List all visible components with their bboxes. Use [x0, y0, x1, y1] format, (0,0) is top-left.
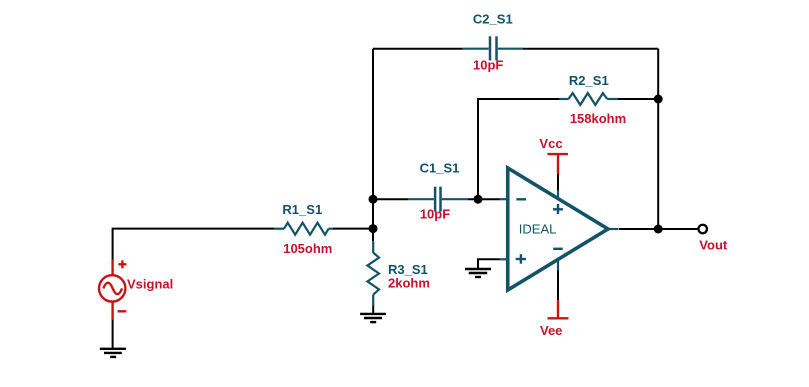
op-amp Vcc plus mark [553, 208, 563, 210]
svg-text:Vcc: Vcc [539, 136, 562, 151]
value 2kohm [388, 276, 430, 291]
svg-text:10pF: 10pF [473, 58, 503, 73]
junction (R2 / right rail) [654, 95, 663, 104]
svg-text:C2_S1: C2_S1 [473, 12, 513, 27]
svg-text:R2_S1: R2_S1 [569, 73, 609, 88]
junction (R1/R3/C-branch node) [369, 224, 378, 233]
svg-text:R1_S1: R1_S1 [282, 202, 322, 217]
wire feedback branch (node to R2) [478, 99, 560, 199]
op-amp Vee minus mark [553, 248, 563, 250]
svg-text:Vee: Vee [540, 323, 562, 338]
wire op-amp output to terminal [619, 228, 698, 230]
op-amp output stub [608, 228, 619, 230]
ground (non-inverting input) [465, 269, 491, 277]
wire C1 to inverting input node [468, 198, 500, 200]
power rail Vcc [547, 154, 568, 174]
power rail Vee [548, 300, 569, 318]
wire top rail left [373, 48, 463, 50]
resistor R2_S1 [560, 93, 618, 105]
value 158kohm [570, 111, 626, 126]
svg-text:10pF: 10pF [420, 207, 450, 222]
value 105ohm [283, 241, 332, 256]
label Vee [540, 323, 562, 338]
ground (source) [100, 349, 126, 357]
svg-text:Vsignal: Vsignal [127, 277, 173, 292]
svg-text:158kohm: 158kohm [570, 111, 626, 126]
resistor R1_S1 [274, 223, 333, 235]
wire R3 to ground [372, 305, 374, 314]
op-amp non-inverting input plus mark [516, 258, 526, 260]
wire source bottom to ground [112, 320, 114, 349]
wire node to R3 [372, 229, 374, 242]
op-amp U1 (IDEAL) [500, 168, 619, 300]
svg-text:105ohm: 105ohm [283, 241, 332, 256]
op-amp Vee pin black segment [557, 270, 559, 300]
terminal Vout [698, 225, 707, 234]
wire top rail right [523, 48, 658, 50]
label Vout [699, 237, 728, 252]
label C1_S1 [420, 161, 460, 176]
junction (C1 / R2 / op-amp inverting input) [474, 195, 483, 204]
junction (output / feedback) [654, 225, 663, 234]
wire non-inverting input to ground [478, 259, 500, 269]
label C2_S1 [473, 12, 513, 27]
op-amp Vcc pin teal stub [557, 190, 559, 200]
svg-text:2kohm: 2kohm [388, 276, 430, 291]
wire from source top to R1 [113, 229, 274, 260]
capacitor C2_S1 [463, 36, 523, 60]
value 10pF (C1) [420, 207, 450, 222]
label Vcc [539, 136, 562, 151]
label R1_S1 [282, 202, 322, 217]
op-amp triangle [508, 168, 608, 290]
svg-text:C1_S1: C1_S1 [420, 161, 460, 176]
svg-text:IDEAL: IDEAL [519, 222, 557, 237]
label R3_S1 [388, 262, 428, 277]
junction (C1 branch node) [369, 195, 378, 204]
wire right rail down to output [657, 49, 659, 229]
wire R2 to right rail [618, 98, 658, 100]
op-amp Vee pin teal stub [557, 260, 559, 271]
op-amp inverting input minus mark [516, 198, 526, 200]
op-amp Vcc pin black segment [557, 174, 559, 190]
op-amp inverting input stub [500, 198, 508, 200]
op-amp non-inverting input stub [500, 258, 508, 260]
wire R1 to node [333, 228, 373, 230]
label Vsignal [127, 277, 173, 292]
ground (R3) [360, 314, 386, 322]
label R2_S1 [569, 73, 609, 88]
wire node up to top rail [372, 49, 374, 229]
value 10pF (C2) [473, 58, 503, 73]
capacitor C1_S1 [408, 187, 468, 212]
svg-text:Vout: Vout [699, 237, 728, 252]
resistor R3_S1 [367, 241, 379, 305]
wire node to C1 [373, 198, 408, 200]
voltage source Vsignal [99, 260, 126, 320]
